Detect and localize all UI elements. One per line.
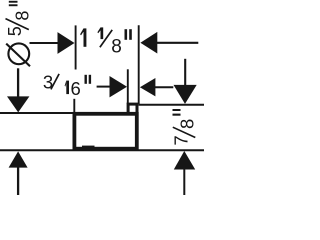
- svg-text:8: 8: [12, 11, 32, 21]
- svg-text:3: 3: [43, 71, 53, 92]
- svg-text:5: 5: [5, 26, 25, 36]
- svg-text:6: 6: [71, 78, 81, 99]
- svg-text:8: 8: [177, 119, 198, 129]
- svg-text:8: 8: [111, 37, 122, 58]
- svg-text:7: 7: [171, 135, 192, 145]
